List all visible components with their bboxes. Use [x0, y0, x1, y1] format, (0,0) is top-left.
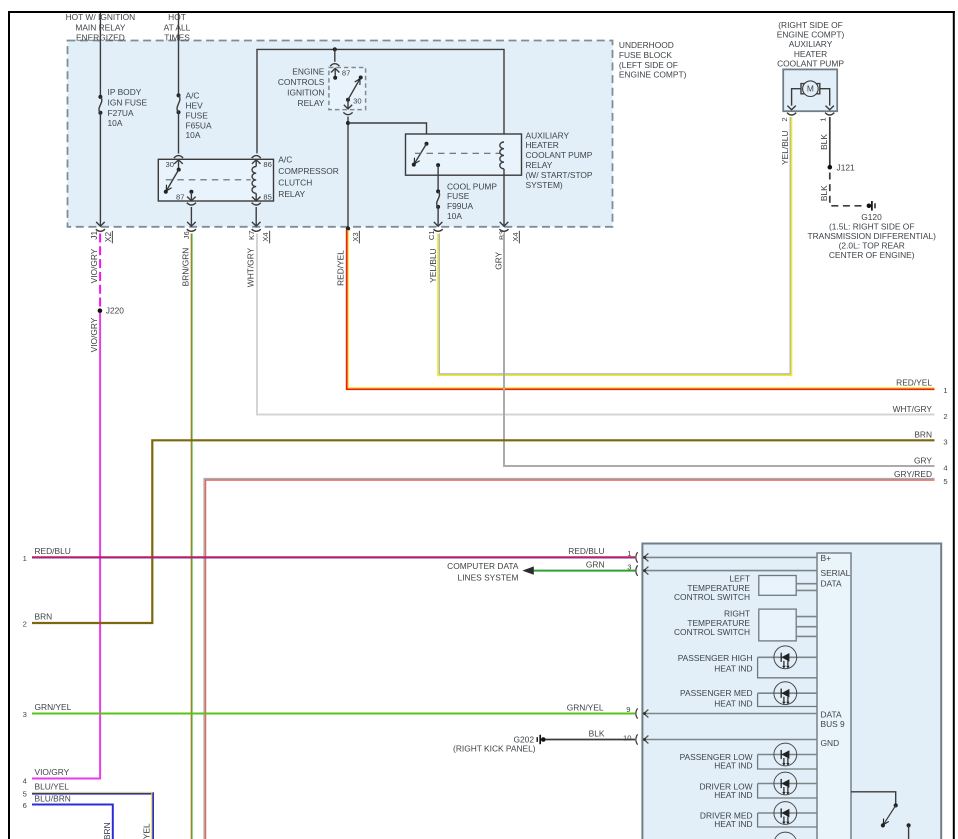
svg-text:J220: J220: [106, 306, 125, 316]
svg-text:30: 30: [166, 160, 174, 169]
svg-text:RED/BLU: RED/BLU: [568, 546, 604, 556]
svg-text:X3: X3: [351, 232, 360, 241]
indicator LED driver low heat ind: [699, 772, 817, 800]
splice J121: [828, 162, 856, 172]
svg-text:COMPUTER DATA: COMPUTER DATA: [447, 561, 519, 571]
svg-text:(2.0L: TOP REAR: (2.0L: TOP REAR: [839, 241, 905, 251]
module pin 1 wire B+: [636, 552, 817, 562]
svg-text:3: 3: [943, 438, 947, 447]
module pin 10 wire GND: [636, 734, 817, 744]
engine controls ignition relay: [278, 64, 366, 115]
svg-text:BRN: BRN: [914, 429, 932, 439]
svg-text:RED/BLU: RED/BLU: [35, 546, 71, 556]
svg-text:GRY: GRY: [914, 456, 932, 466]
svg-text:6: 6: [23, 801, 27, 810]
svg-text:87: 87: [176, 193, 184, 202]
svg-text:A/C: A/C: [278, 155, 292, 165]
svg-text:(1.5L: RIGHT SIDE OF: (1.5L: RIGHT SIDE OF: [829, 222, 914, 232]
svg-text:TIMES: TIMES: [164, 33, 190, 43]
svg-text:AUXILIARY: AUXILIARY: [526, 130, 570, 140]
indicator LED driver high heat ind (partial, cut by page bottom): [774, 832, 797, 839]
wire YEL/BLU pump pin 2 to connector C1: [428, 117, 791, 375]
svg-text:K7: K7: [247, 231, 256, 240]
wire top bus from pin 86 to aux relay coil: [257, 47, 504, 153]
wire GRY connector B3 to right edge pin 4: [493, 234, 947, 473]
label: underhood fuse block: [619, 40, 687, 80]
A/C heater control module: [642, 544, 941, 839]
svg-text:HEAT IND: HEAT IND: [714, 664, 752, 674]
svg-text:ENGINE COMPT): ENGINE COMPT): [619, 70, 687, 80]
indicator LED driver med heat ind: [700, 802, 817, 829]
wire fuse F27UA to connector J1/X2: [96, 113, 105, 232]
module pin 9 wire DATA BUS 9: [636, 708, 817, 718]
svg-text:X2: X2: [103, 232, 113, 243]
svg-text:10: 10: [623, 733, 631, 742]
svg-text:RELAY: RELAY: [526, 160, 553, 170]
svg-text:YEL/BLU: YEL/BLU: [780, 130, 790, 164]
auxiliary heater coolant pump label: [777, 20, 845, 69]
svg-text:RED/YEL: RED/YEL: [896, 377, 932, 387]
svg-text:86: 86: [263, 160, 271, 169]
svg-text:CENTER OF ENGINE): CENTER OF ENGINE): [829, 250, 915, 260]
svg-text:J121: J121: [837, 162, 856, 172]
svg-text:F27UA: F27UA: [108, 108, 134, 118]
wire aux relay coil to connector B3/X4: [498, 169, 520, 244]
svg-text:BLU/BRN: BLU/BRN: [102, 822, 112, 839]
indicator LED passenger low heat ind: [680, 743, 817, 770]
svg-text:J1: J1: [89, 231, 99, 240]
svg-text:10A: 10A: [186, 130, 201, 140]
svg-text:3: 3: [23, 710, 27, 719]
wire WHT/GRY connector K7 to right edge pin 2: [246, 234, 948, 422]
indicator LED passenger med heat ind: [680, 682, 817, 709]
wire relay pin 87 to connector J6: [182, 207, 196, 239]
svg-text:ENGINE COMPT): ENGINE COMPT): [777, 30, 845, 40]
svg-text:IGNITION: IGNITION: [287, 88, 324, 98]
svg-text:(RIGHT KICK PANEL): (RIGHT KICK PANEL): [453, 744, 536, 754]
svg-text:COOLANT PUMP: COOLANT PUMP: [777, 59, 844, 69]
svg-text:85: 85: [263, 193, 271, 202]
svg-text:PASSENGER HIGH: PASSENGER HIGH: [678, 653, 753, 663]
wire BLU/YEL left edge pin 5 down off page: [23, 781, 153, 839]
svg-text:DATA: DATA: [821, 709, 843, 719]
svg-text:GND: GND: [821, 738, 840, 748]
svg-text:HEAT IND: HEAT IND: [714, 699, 752, 709]
fuse F27UA (IP BODY IGN FUSE 10A): [98, 87, 147, 128]
svg-text:1: 1: [943, 386, 947, 395]
svg-text:FUSE BLOCK: FUSE BLOCK: [619, 50, 672, 60]
wire relay pin 85 to connector K7/X4: [247, 207, 270, 243]
svg-text:WHT/GRY: WHT/GRY: [246, 247, 256, 287]
svg-text:5: 5: [23, 790, 27, 799]
svg-text:BLK: BLK: [589, 729, 605, 739]
auxiliary heater coolant pump relay: [406, 130, 593, 190]
wire fuse F99UA to connector C1: [427, 207, 443, 240]
svg-text:RED/YEL: RED/YEL: [336, 250, 346, 286]
wire BLU/BRN left edge pin 6 down off page: [23, 794, 113, 839]
svg-text:30: 30: [353, 97, 361, 106]
splice J220: [98, 306, 125, 316]
svg-text:GRN/YEL: GRN/YEL: [567, 703, 604, 713]
wire BRN/GRN connector J6 down off page: [180, 234, 192, 839]
ground G120: [807, 201, 936, 260]
svg-text:PASSENGER MED: PASSENGER MED: [680, 688, 752, 698]
svg-text:COOL PUMP: COOL PUMP: [447, 181, 497, 191]
svg-text:BLK: BLK: [819, 185, 829, 201]
A/C compressor clutch relay: [158, 155, 338, 206]
svg-text:BLK: BLK: [819, 134, 829, 150]
svg-text:LINES SYSTEM: LINES SYSTEM: [458, 572, 519, 582]
svg-text:C1: C1: [427, 230, 436, 240]
svg-text:(RIGHT SIDE OF: (RIGHT SIDE OF: [778, 20, 843, 30]
svg-text:3: 3: [627, 562, 631, 571]
svg-text:A/C: A/C: [186, 91, 200, 101]
wire BLK ground G202 to module pin 10: [546, 729, 636, 743]
svg-text:(W/ START/STOP: (W/ START/STOP: [526, 170, 593, 180]
svg-text:GRY/RED: GRY/RED: [894, 469, 932, 479]
wire BLK (dashed) J121 to ground G120: [819, 173, 864, 206]
fuse F65UA (A/C HEV FUSE 10A): [177, 91, 212, 141]
svg-text:UNDERHOOD: UNDERHOOD: [619, 40, 674, 50]
svg-text:M: M: [807, 84, 814, 94]
svg-text:9: 9: [626, 705, 630, 714]
svg-text:HEAT IND: HEAT IND: [714, 819, 752, 829]
svg-text:87: 87: [342, 69, 350, 78]
wire RED/YEL connector X3 to right edge pin 1: [336, 230, 948, 395]
wire GRN/YEL left edge pin 3 to module pin 9: [23, 702, 635, 719]
left temperature control switch: [674, 574, 817, 603]
wire GRY/RED right edge pin 5 down off page: [205, 469, 948, 839]
svg-text:RELAY: RELAY: [278, 189, 305, 199]
svg-text:RELAY: RELAY: [298, 98, 325, 108]
underhood fuse block (dashed box): [68, 41, 613, 227]
wire feed to fuse F65UA: [178, 13, 180, 95]
svg-text:4: 4: [943, 464, 947, 473]
svg-text:2: 2: [943, 412, 947, 421]
svg-text:2: 2: [780, 117, 789, 121]
svg-text:HEATER: HEATER: [526, 140, 559, 150]
svg-text:1: 1: [23, 554, 27, 563]
svg-text:COMPRESSOR: COMPRESSOR: [278, 166, 339, 176]
svg-text:(LEFT SIDE OF: (LEFT SIDE OF: [619, 60, 678, 70]
svg-text:BLU/YEL: BLU/YEL: [35, 781, 70, 791]
wire GRN module pin 3 to computer data lines arrow: [447, 559, 635, 582]
fuse F99UA (COOL PUMP FUSE 10A): [436, 165, 497, 221]
svg-text:B3: B3: [498, 231, 507, 240]
wire fuse F65UA to relay pin 30: [174, 112, 183, 158]
svg-text:ENGINE: ENGINE: [292, 66, 325, 76]
svg-text:4: 4: [23, 776, 27, 785]
svg-text:VIO/GRY: VIO/GRY: [35, 767, 70, 777]
svg-text:COOLANT PUMP: COOLANT PUMP: [526, 150, 593, 160]
svg-text:BUS 9: BUS 9: [821, 719, 846, 729]
feed label HOT W/ IGNITION MAIN RELAY ENERGIZED: [66, 12, 136, 43]
svg-text:TRANSMISSION DIFFERENTIAL): TRANSMISSION DIFFERENTIAL): [807, 231, 936, 241]
connector pins J1 X2: [89, 231, 113, 244]
wire ignition relay pin 30 to X3 and aux relay: [346, 117, 427, 244]
right temperature control switch: [674, 609, 817, 641]
svg-text:CLUTCH: CLUTCH: [278, 177, 312, 187]
svg-text:HEATER: HEATER: [794, 49, 827, 59]
svg-text:1: 1: [819, 117, 828, 121]
svg-text:GRN/YEL: GRN/YEL: [35, 702, 72, 712]
svg-text:HEAT IND: HEAT IND: [714, 790, 752, 800]
svg-text:IP BODY: IP BODY: [108, 87, 142, 97]
svg-text:CONTROL SWITCH: CONTROL SWITCH: [674, 592, 750, 602]
feed label HOT AT ALL TIMES: [164, 12, 191, 43]
svg-text:GRY: GRY: [493, 251, 503, 269]
svg-text:X4: X4: [511, 232, 520, 241]
wire VIO/GRY J220 to left edge pin 4: [23, 313, 101, 785]
svg-text:10A: 10A: [108, 118, 123, 128]
indicator LED passenger high heat ind: [678, 646, 817, 678]
svg-text:VIO/GRY: VIO/GRY: [89, 317, 99, 352]
svg-text:FUSE: FUSE: [186, 110, 209, 120]
svg-text:J6: J6: [182, 231, 191, 239]
svg-text:F99UA: F99UA: [447, 201, 473, 211]
module internal bus strip: [817, 553, 851, 839]
svg-text:GRN: GRN: [586, 559, 605, 569]
svg-text:IGN FUSE: IGN FUSE: [108, 97, 148, 107]
module internal switch: [851, 792, 911, 839]
svg-text:YEL/BLU: YEL/BLU: [428, 248, 438, 282]
svg-text:B+: B+: [821, 553, 832, 563]
wire BLK pump pin 1 to splice J121: [819, 117, 830, 165]
svg-text:BRN: BRN: [35, 612, 53, 622]
svg-text:X4: X4: [261, 232, 270, 241]
svg-text:HEV: HEV: [186, 101, 204, 111]
svg-text:AUXILIARY: AUXILIARY: [789, 39, 833, 49]
svg-text:F65UA: F65UA: [186, 120, 212, 130]
auxiliary heater coolant pump (motor M1): [780, 69, 837, 121]
svg-text:AT ALL: AT ALL: [164, 22, 191, 32]
svg-text:1: 1: [627, 549, 631, 558]
svg-text:5: 5: [943, 477, 947, 486]
ground G202: [453, 735, 546, 754]
svg-text:WHT/GRY: WHT/GRY: [893, 404, 933, 414]
svg-text:CONTROL SWITCH: CONTROL SWITCH: [674, 627, 750, 637]
svg-text:SYSTEM): SYSTEM): [526, 180, 563, 190]
svg-text:DATA: DATA: [821, 578, 843, 588]
svg-text:G120: G120: [861, 212, 882, 222]
wire BRN left edge pin 2 to right edge pin 3: [23, 429, 948, 628]
module pin 3 wire SERIAL DATA: [636, 565, 817, 575]
svg-text:FUSE: FUSE: [447, 191, 470, 201]
wire VIO/GRY connector X2 to splice J220 (dashed): [89, 234, 100, 309]
svg-text:HOT: HOT: [168, 12, 186, 22]
wire feed to fuse F27UA: [99, 13, 101, 96]
svg-text:10A: 10A: [447, 211, 462, 221]
svg-text:SERIAL: SERIAL: [821, 568, 851, 578]
svg-text:CONTROLS: CONTROLS: [278, 77, 325, 87]
svg-text:BRN/GRN: BRN/GRN: [180, 248, 190, 287]
svg-text:VIO/GRY: VIO/GRY: [89, 248, 99, 283]
svg-text:2: 2: [23, 620, 27, 629]
svg-text:HEAT IND: HEAT IND: [714, 760, 752, 770]
svg-text:BLU/YEL: BLU/YEL: [142, 823, 152, 839]
svg-text:BLU/BRN: BLU/BRN: [35, 794, 71, 804]
wire RED/BLU left edge pin 1 to module pin 1: [23, 546, 635, 563]
